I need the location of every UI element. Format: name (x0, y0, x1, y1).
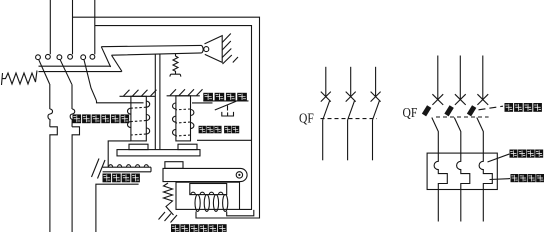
armature pedestal right (178, 144, 197, 149)
label 欠电压脱扣器 (171, 224, 227, 233)
thermal/magnetic box (427, 153, 497, 189)
U2 core (131, 96, 146, 141)
remote button contact (215, 101, 236, 110)
wire phase L2 top (72, 0, 74, 54)
svg-text:QF: QF (403, 106, 418, 121)
U3 coil right hooks (191, 110, 194, 129)
overcurrent coil bump pole 1 (48, 109, 53, 127)
UV armature tab (165, 162, 183, 169)
fixed pivot bracket triangle (205, 36, 223, 63)
UV coil loops (195, 195, 200, 212)
leader overcurrent (490, 178, 511, 181)
leader undervoltage (479, 106, 504, 110)
blade pole 1 (39, 60, 50, 84)
blade pole 3 (84, 60, 97, 101)
label 过流保护 (511, 174, 544, 182)
armature platform (117, 150, 200, 156)
U2 coil left hooks (127, 108, 130, 127)
button bracket (222, 112, 234, 116)
shunt release U3 ceiling (167, 95, 200, 97)
U3 top lead to button (192, 102, 213, 104)
fixed contact hook pole 2 (68, 54, 73, 59)
main trip blade diagonals (101, 47, 122, 72)
pole 2 right (459, 56, 461, 100)
leader overload (488, 154, 510, 162)
label 过电流脱扣器 (73, 114, 130, 123)
in-box element pole 3 (479, 153, 492, 221)
label 失压保护 (505, 103, 542, 112)
fixed contact hook pole 3 (90, 54, 95, 59)
lever pivot lobe (202, 45, 204, 53)
overcurrent coil bump pole 2 (70, 109, 75, 127)
pole 1 middle (325, 67, 327, 96)
UV release armature bar (163, 168, 247, 181)
moving contact pivot pole 3 (81, 55, 86, 60)
phase tap wire B (95, 26, 252, 210)
pole 3 middle (375, 67, 377, 96)
UV coil right lead (227, 210, 254, 216)
overcurrent release U2 ceiling (120, 95, 156, 97)
fixed contact hook pole 1 (46, 54, 51, 59)
heater jog pole 1 (50, 127, 58, 232)
linkage dashes right (436, 116, 489, 118)
UV spring anchor hatching (159, 212, 178, 223)
armature pedestal left (129, 144, 148, 149)
button actuator stem (227, 106, 229, 111)
label 热脱扣器 (103, 174, 140, 183)
UV return spring (164, 183, 174, 215)
U3 coil left hooks (173, 103, 176, 135)
wire pole 1 lower (49, 84, 51, 109)
UV core window (190, 184, 227, 195)
pole 1 right (437, 56, 439, 100)
U3 core (176, 96, 191, 141)
U2 ceiling hatching (124, 90, 157, 96)
U2 bottom lead (108, 141, 131, 167)
trip spring under lever (170, 54, 181, 77)
phase tap wire A (73, 17, 260, 218)
UV armature pivot (236, 172, 242, 178)
label 过载保护 (510, 150, 544, 158)
moving contact pivot pole 2 (57, 55, 62, 60)
moving contact pivot pole 1 (36, 55, 41, 60)
in-box element pole 1 (434, 153, 447, 221)
heater jog pole 2 (72, 127, 80, 232)
svg-text:QF: QF (299, 112, 314, 127)
U2 coil dashed turns (131, 107, 146, 135)
bimetal strip (103, 167, 151, 172)
lever bar (101, 45, 202, 55)
opening spring left (2, 71, 38, 86)
wire phase L3 top (94, 0, 96, 54)
trip rod (double line) (155, 54, 160, 149)
thermal lead wire (96, 184, 139, 232)
bimetal fixed-end hatching (92, 159, 106, 179)
wire button to phase tap B (197, 139, 252, 141)
wire pole 2 lower (71, 84, 73, 109)
wire pole 3 elbow to release coil (97, 101, 144, 103)
pole 2 middle (350, 67, 352, 96)
bimetal heater curls (108, 165, 148, 168)
U3 coil dashed turns (176, 109, 191, 136)
pivot circle U0 (204, 47, 209, 52)
button label underline (203, 100, 248, 102)
blade pole 2 (60, 60, 72, 85)
in-box element pole 2 (457, 153, 470, 221)
pole 3 right (482, 56, 484, 100)
U2 coil right hooks (146, 101, 149, 134)
label 遥控按钮 (203, 93, 247, 101)
linkage dashes middle (321, 118, 378, 120)
crossbar linkage (double line) (39, 66, 122, 71)
UV yoke box (176, 182, 240, 209)
wire phase L1 top (49, 0, 51, 54)
label 分励脱扣器 (199, 126, 240, 133)
U3 ceiling hatching (170, 89, 203, 95)
UV coil bumps (191, 192, 223, 194)
bracket hatching (222, 34, 238, 65)
